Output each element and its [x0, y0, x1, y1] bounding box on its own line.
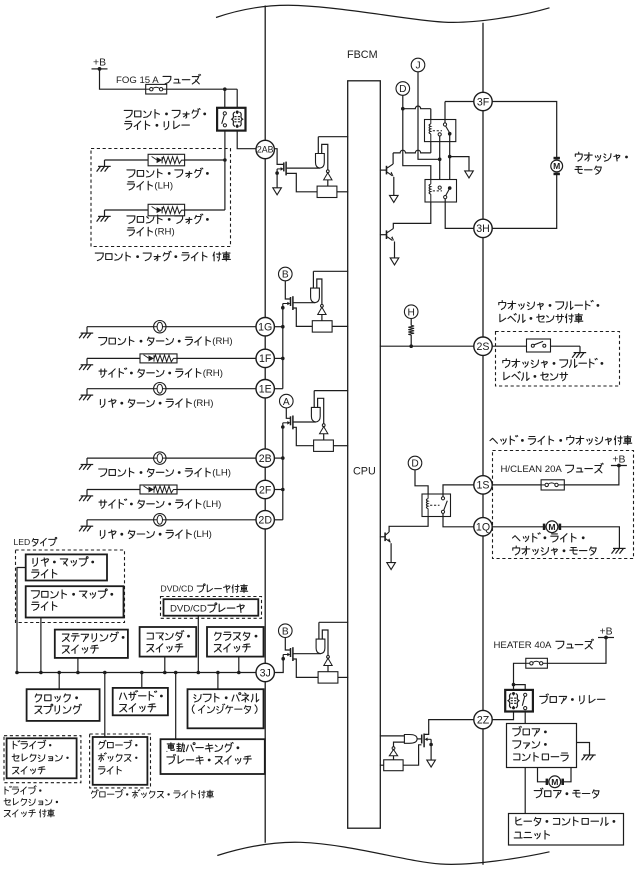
- relay2 output to 3H: [445, 199, 474, 229]
- MOSFET (turn RH): [291, 296, 316, 310]
- svg-text:1F: 1F: [259, 353, 272, 365]
- fuse to blower relay wire: [512, 663, 526, 690]
- Q2 collector wire to relay2 coil: [393, 202, 431, 229]
- sense resistor (blower): [384, 760, 403, 771]
- heater control unit box: [509, 814, 624, 846]
- relay to 1Q: [443, 513, 474, 526]
- ground (fog driver): [273, 173, 282, 195]
- blower relay: [505, 690, 533, 712]
- side turn RH label: [99, 368, 223, 379]
- svg-text:(LH): (LH): [212, 468, 231, 479]
- net circle B: [279, 267, 293, 281]
- washer fluid level sensor switch: [492, 339, 580, 352]
- svg-text:H: H: [408, 307, 415, 318]
- inverter (blower): [389, 747, 397, 760]
- svg-text:2B: 2B: [259, 453, 272, 465]
- fuse to +B wire: [564, 466, 619, 485]
- shift panel wire: [217, 673, 219, 690]
- rear map light box: [26, 554, 107, 580]
- drive selection footnote: [4, 786, 58, 817]
- ground (fog LH): [97, 160, 111, 172]
- ground (fog RH): [97, 210, 111, 222]
- ground (front turn LH): [79, 458, 93, 470]
- FBCM top torn edge: [216, 5, 550, 22]
- ground (side turn LH): [79, 490, 93, 502]
- side turn light LH: [87, 485, 256, 494]
- svg-text:J: J: [415, 61, 420, 72]
- blower motor label: [534, 788, 599, 798]
- relay1 contacts down to relay2: [440, 134, 452, 187]
- svg-text:DVD/CD: DVD/CD: [170, 603, 207, 614]
- svg-text:(LH): (LH): [203, 499, 222, 510]
- net circle H: [404, 305, 418, 319]
- svg-text:M: M: [553, 161, 560, 171]
- DVD dashed box: [161, 597, 262, 619]
- CPU box: [348, 81, 381, 828]
- CPU control wire to gate driver (turn LH): [314, 391, 348, 408]
- DVD/CD player box: [164, 599, 259, 616]
- cluster switch box: [207, 627, 264, 657]
- J wire: [418, 72, 442, 161]
- connector 1G: [256, 318, 274, 336]
- Q3 emitter ground: [387, 543, 396, 569]
- ground (side turn RH): [79, 358, 93, 370]
- blower relay to controller: [524, 712, 526, 724]
- fog LH label: [127, 168, 209, 192]
- washer relay 2: [425, 180, 457, 203]
- feedback wire (3J): [322, 630, 328, 656]
- motor to ground wire: [559, 527, 620, 542]
- feedback wire (turn LH): [318, 398, 324, 424]
- svg-text:(LH): (LH): [154, 181, 173, 192]
- svg-text:LED: LED: [14, 537, 31, 547]
- relay to 1S: [443, 485, 474, 497]
- svg-text:M: M: [551, 777, 558, 787]
- H/CLEAN fuse label: [501, 463, 604, 475]
- front fog light RH: [105, 204, 185, 216]
- sensor dashed box: [496, 332, 620, 387]
- output wire to 2B 2F 2D: [274, 427, 284, 520]
- controller to heater control unit wire: [524, 768, 526, 814]
- commander switch box: [140, 627, 197, 657]
- MOSFET (blower): [417, 734, 424, 748]
- fog lights optional dashed box: [91, 149, 231, 247]
- washer motor: [551, 158, 563, 174]
- svg-text:3H: 3H: [476, 223, 490, 235]
- front turn light RH: [87, 321, 256, 333]
- +B battery terminal (fog): [92, 58, 108, 71]
- LED type label: [14, 537, 57, 547]
- 2Z to blower relay coil: [492, 712, 513, 720]
- ground (controller): [582, 749, 596, 761]
- FBCM left connector trunk: [264, 6, 266, 843]
- transistor Q3: [380, 532, 391, 543]
- front map light box: [26, 586, 124, 617]
- front turn RH label: [99, 336, 233, 347]
- connector 1E: [256, 380, 274, 398]
- svg-text:2AB: 2AB: [257, 145, 274, 155]
- ground (level sensor): [572, 346, 586, 358]
- clock spring wire: [58, 673, 60, 690]
- rear turn light LH: [87, 514, 256, 526]
- electric parking brake switch box: [161, 739, 265, 774]
- connector 2AB: [256, 140, 274, 158]
- inverter (fog output): [324, 170, 332, 186]
- svg-text:2S: 2S: [477, 341, 490, 353]
- Q1 collector wire to relay1 coil: [393, 142, 431, 164]
- rear turn LH label: [100, 529, 211, 540]
- connector 1Q: [474, 518, 492, 536]
- sense resistor (turn RH): [312, 321, 332, 332]
- connector 1S: [474, 476, 492, 494]
- side turn LH label: [99, 499, 221, 510]
- MOSFET body (fog): [275, 167, 283, 175]
- transistor Q1 (washer relay 1 driver): [380, 164, 394, 177]
- +B (heater): [598, 626, 614, 639]
- gate driver buffer (turn LH): [311, 407, 320, 422]
- MOSFET (3J): [291, 647, 321, 661]
- blower relay label: [540, 694, 605, 704]
- feedback wire (fog output): [322, 144, 328, 170]
- washer motor label: [575, 152, 628, 174]
- feedback wire (turn RH): [317, 279, 322, 305]
- MOSFET body (turn RH): [281, 302, 290, 310]
- svg-text:2F: 2F: [259, 484, 272, 496]
- steering switch box: [55, 630, 128, 658]
- FBCM right connector trunk: [482, 23, 484, 865]
- Q2 emitter ground: [390, 242, 399, 265]
- connector 3J: [256, 663, 274, 681]
- MOSFET (fog output): [284, 162, 320, 176]
- transistor Q2 (washer relay 2 driver): [380, 229, 395, 242]
- CPU control wire to gate driver (fog output): [318, 137, 348, 154]
- hazard switch box: [113, 688, 168, 715]
- headlight washer motor label: [513, 533, 597, 555]
- connector 2Z: [474, 710, 492, 728]
- 2AB input wire: [274, 149, 283, 165]
- sensor label: [503, 358, 604, 380]
- gate driver buffer (fog output): [316, 154, 325, 169]
- svg-text:(RH): (RH): [154, 227, 174, 238]
- Q1 emitter ground: [390, 177, 399, 203]
- headlight washer motor: [544, 521, 560, 533]
- relay coil to Q3: [389, 517, 428, 533]
- front fog light LH: [105, 154, 225, 166]
- MOSFET body (turn LH): [281, 421, 290, 429]
- net A input: [286, 408, 290, 418]
- net circle J: [411, 58, 425, 72]
- LED map lights dashed box: [16, 550, 125, 623]
- connector 3F: [474, 92, 492, 110]
- ground (blower driver): [427, 745, 436, 768]
- CPU label: [353, 466, 376, 478]
- headlight washer option label: [490, 435, 632, 444]
- rear map light wire: [17, 568, 26, 673]
- blower gate driver buffer: [404, 735, 417, 744]
- front turn light LH: [87, 452, 256, 464]
- DVD/CD player option label: [161, 584, 248, 594]
- fuse FOG 15A: [146, 84, 167, 94]
- D wire to washer relay 2 coil: [403, 95, 431, 179]
- FBCM bottom torn edge: [217, 842, 549, 864]
- svg-text:+B: +B: [93, 58, 106, 69]
- ground (headlight washer motor): [612, 542, 626, 554]
- sense resistor (turn LH): [314, 440, 334, 451]
- +B (headlight washer): [611, 454, 627, 467]
- MOSFET (turn LH): [291, 416, 316, 430]
- resistor wiring (turn RH): [293, 308, 348, 326]
- washer motor circuit: [492, 102, 557, 229]
- feedback wire (blower): [394, 742, 405, 747]
- svg-text:B: B: [282, 626, 289, 637]
- MOSFET body (blower): [425, 738, 433, 747]
- glove box light wire: [104, 673, 106, 738]
- D wire to relay coil: [415, 470, 428, 494]
- MOSFET drain to 2Z: [425, 720, 474, 735]
- net circle D: [396, 82, 410, 96]
- svg-text:1E: 1E: [259, 384, 272, 396]
- drive selection dashed box: [4, 736, 81, 783]
- net B input: [285, 281, 290, 299]
- ground (rear turn RH): [79, 389, 93, 401]
- glove box light box: [93, 737, 148, 785]
- output wire to 1G 1F 1E: [274, 308, 284, 389]
- svg-text:D: D: [411, 459, 418, 470]
- glove box light dashed box: [90, 734, 151, 788]
- svg-text:+B: +B: [612, 454, 625, 465]
- blower motor: [547, 776, 563, 788]
- D wire to washer relay 1 coil: [401, 106, 431, 120]
- sense resistor (3J): [318, 672, 338, 683]
- svg-text:B: B: [282, 270, 289, 281]
- svg-text:2D: 2D: [258, 515, 272, 527]
- fuse H/CLEAN 20A: [541, 480, 564, 490]
- svg-text:1G: 1G: [258, 322, 272, 334]
- ground (rear turn LH): [79, 520, 93, 532]
- front turn LH label: [99, 468, 231, 479]
- gate driver buffer (3J): [316, 639, 325, 654]
- svg-text:1Q: 1Q: [476, 522, 490, 534]
- connector 3H: [474, 219, 492, 237]
- controller ground wire: [577, 743, 590, 749]
- branch to internal ground: [450, 157, 474, 178]
- svg-text:DVD/CD: DVD/CD: [161, 584, 194, 594]
- CPU control wire to gate driver (3J): [319, 622, 348, 639]
- svg-text:CPU: CPU: [353, 466, 376, 478]
- svg-text:FBCM: FBCM: [347, 49, 378, 61]
- 3J bus wire: [15, 671, 256, 675]
- svg-text:HEATER 40A: HEATER 40A: [494, 640, 553, 651]
- svg-text:M: M: [548, 522, 555, 532]
- front fog light relay: [217, 108, 245, 131]
- output wire to 3J: [274, 659, 283, 673]
- connector 2D: [256, 511, 274, 529]
- wire relay to 2AB: [237, 131, 256, 149]
- connector 2S: [474, 337, 492, 355]
- svg-text:3F: 3F: [477, 96, 490, 108]
- fog relay label: [124, 109, 206, 130]
- HEATER fuse label: [494, 639, 594, 651]
- blower motor loop: [538, 768, 572, 782]
- gate driver buffer (turn RH): [311, 288, 320, 303]
- svg-text:3J: 3J: [260, 667, 271, 679]
- resistor wiring (turn LH): [293, 427, 348, 445]
- sense resistor (fog output): [317, 186, 337, 197]
- svg-text:A: A: [283, 397, 290, 408]
- net circle A: [280, 394, 294, 408]
- wire +B to fuse: [100, 69, 146, 89]
- sensor option label: [499, 300, 600, 322]
- cluster switch wire: [238, 657, 240, 673]
- fog footnote: [95, 251, 230, 261]
- drive selection switch box: [7, 738, 77, 778]
- hazard switch wire: [141, 673, 143, 688]
- svg-text:2Z: 2Z: [477, 714, 490, 726]
- FBCM label: [347, 49, 378, 61]
- glove box footnote: [91, 790, 213, 799]
- inverter (turn RH): [318, 305, 326, 321]
- FOG fuse label: [116, 74, 201, 86]
- commander switch wire: [164, 657, 166, 673]
- svg-text:(RH): (RH): [193, 398, 213, 409]
- svg-text:H/CLEAN 20A: H/CLEAN 20A: [501, 464, 563, 475]
- steering switch wire: [77, 658, 79, 673]
- washer relay 1: [425, 120, 456, 142]
- headlight washer relay: [422, 494, 451, 517]
- connector 2F: [256, 480, 274, 498]
- DVD player wire: [197, 616, 199, 673]
- inverter (turn LH): [320, 424, 328, 440]
- svg-text:(RH): (RH): [203, 368, 223, 379]
- svg-text:+B: +B: [600, 626, 613, 637]
- net circle D (headlight washer): [408, 456, 422, 470]
- ground (front turn RH): [79, 327, 93, 339]
- 2S sense wire: [380, 344, 474, 348]
- clock spring box: [27, 689, 100, 721]
- svg-text:D: D: [399, 84, 406, 95]
- shift panel box: [188, 689, 264, 728]
- fuse HEATER 40A: [526, 658, 548, 668]
- fog RH label: [127, 214, 209, 238]
- CPU wire to blower gate driver: [380, 735, 405, 737]
- inverter (3J): [324, 656, 332, 672]
- wire fuse to relay: [167, 87, 238, 107]
- wire relay to fog lamps: [185, 131, 227, 210]
- headlight washer dashed box: [493, 451, 634, 559]
- parking brake switch wire: [175, 673, 177, 740]
- front map light wire: [40, 618, 42, 673]
- svg-text:(LH): (LH): [193, 529, 212, 540]
- fuse to +B wire: [547, 638, 606, 664]
- MOSFET body (3J): [281, 653, 290, 661]
- svg-text:(RH): (RH): [212, 336, 232, 347]
- blower fan controller box: [507, 724, 577, 768]
- net B input (3J): [285, 638, 290, 651]
- net circle B (3J): [279, 624, 293, 638]
- resistor wiring (blower): [380, 745, 422, 765]
- resistor wiring (fog output): [287, 173, 349, 191]
- resistor wiring (3J): [293, 659, 348, 677]
- side turn light RH: [87, 354, 256, 363]
- svg-text:1S: 1S: [477, 480, 490, 492]
- svg-text:FOG 15 A: FOG 15 A: [116, 75, 159, 86]
- connector 2B: [256, 449, 274, 467]
- connector 1F: [256, 349, 274, 367]
- H pull resistor: [408, 319, 414, 347]
- wire 3F to relay1: [445, 102, 474, 123]
- 1S to fuse wire: [492, 484, 541, 486]
- rear turn light RH: [87, 383, 256, 395]
- CPU control wire to gate driver (turn RH): [313, 271, 348, 288]
- rear turn RH label: [100, 398, 213, 409]
- 1Q to headlight washer motor: [492, 526, 545, 528]
